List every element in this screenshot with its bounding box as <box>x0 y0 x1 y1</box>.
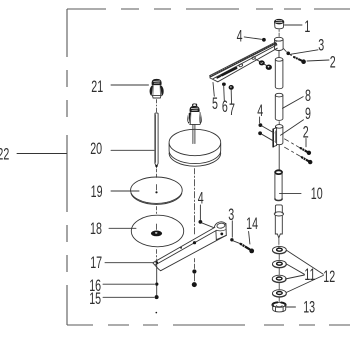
disc 18 <box>131 215 183 247</box>
stud body <box>275 216 282 238</box>
small mark below 15 <box>156 312 158 314</box>
label 17 leader <box>105 262 152 264</box>
diamond dot below arm <box>192 269 196 273</box>
screw 14 <box>241 244 255 253</box>
svg-text:5: 5 <box>212 95 218 113</box>
arm 5 dark slot <box>222 68 236 75</box>
rod between bracket and tube 10 <box>278 145 280 170</box>
svg-text:3: 3 <box>318 36 324 54</box>
upper tube (below collar) <box>275 51 283 89</box>
centerline stud to washers <box>278 239 280 248</box>
label 21 leader <box>111 84 149 86</box>
collar (arm 5 hub) <box>275 37 284 50</box>
nut 13 <box>272 302 285 312</box>
washer 1 <box>273 246 287 254</box>
label 11 fan lines <box>285 264 304 279</box>
label 5 leader <box>213 83 214 97</box>
tube 10 <box>275 170 282 200</box>
screw 4 mid a axis <box>262 126 274 133</box>
label 9 leader <box>281 120 304 136</box>
dot for label 16 <box>155 283 158 286</box>
screw 14 axis <box>233 241 239 244</box>
screw 3 top <box>286 52 291 56</box>
washer stack centerline <box>278 255 280 302</box>
phantom border top edge <box>67 9 350 325</box>
screw 4 mid b <box>258 131 262 135</box>
centerline disc 18 to arm 17 <box>156 250 158 262</box>
label 16 leader <box>103 283 155 285</box>
right centerline below arm with dots <box>193 259 195 282</box>
label 20 leader <box>111 149 154 151</box>
arm 17 face dot right <box>220 233 223 236</box>
washer 4 <box>273 290 287 298</box>
svg-text:4: 4 <box>198 189 204 207</box>
stud top cap <box>275 205 282 213</box>
label 3 top leader <box>291 50 318 54</box>
dot for label 15 <box>155 295 159 299</box>
svg-text:2: 2 <box>303 123 309 141</box>
label 19 leader <box>111 190 139 192</box>
arm 17 (lower diagonal bar) <box>153 222 227 271</box>
label 2 top leader <box>307 60 329 61</box>
bracket 9 <box>273 125 283 147</box>
screw 4 low (dot) <box>199 220 203 224</box>
label 4 top leader <box>244 37 261 39</box>
clamp knob under arm <box>266 65 272 70</box>
svg-text:19: 19 <box>91 183 103 201</box>
label 12 fan lines <box>286 250 323 292</box>
screw 4 top (dot) <box>262 38 266 42</box>
washer 2 <box>273 260 287 268</box>
svg-text:22: 22 <box>0 145 9 163</box>
centerline thick disc to arm <box>194 169 196 235</box>
label 22 leader <box>17 153 67 155</box>
svg-text:4: 4 <box>237 27 243 45</box>
label 6 leader <box>223 86 226 100</box>
label 4 mid leader <box>259 117 261 123</box>
washer 3 <box>272 275 286 283</box>
svg-text:3: 3 <box>228 206 234 224</box>
label 3 low leader <box>231 221 233 237</box>
svg-text:21: 21 <box>91 78 103 96</box>
screw 3 low dot <box>230 238 233 241</box>
washer 7 <box>229 85 234 90</box>
tube 8 <box>275 93 283 120</box>
centerline cap to collar <box>278 30 280 37</box>
arm 5 hole (right) <box>252 56 256 59</box>
star knob on thick disc <box>187 104 202 125</box>
svg-text:9: 9 <box>305 105 311 123</box>
arm 5 (upper diagonal bar) <box>210 42 277 82</box>
label 1 leader <box>285 24 303 26</box>
svg-text:18: 18 <box>90 220 102 238</box>
centerline knob 21 to rod 20 <box>156 100 158 113</box>
label 13 leader <box>286 306 295 308</box>
svg-text:1: 1 <box>304 18 310 36</box>
screw 4 mid a <box>259 123 263 127</box>
label 15 leader <box>103 296 154 298</box>
phantom border left edge <box>66 9 68 325</box>
round dot below arm <box>192 282 197 287</box>
dot 16 on left centerline at arm top <box>156 261 159 264</box>
label 8 leader <box>283 97 304 109</box>
arm 17 face dot mid <box>180 247 182 249</box>
clamp bolt axis under arm <box>255 59 266 65</box>
label 18 leader <box>109 227 136 229</box>
svg-text:14: 14 <box>246 215 258 233</box>
left centerline through arm to dots 15/16 <box>156 263 158 298</box>
svg-text:11: 11 <box>304 266 315 284</box>
label 7 leader <box>230 90 232 103</box>
svg-text:17: 17 <box>90 254 102 272</box>
svg-text:4: 4 <box>257 102 263 120</box>
svg-text:2: 2 <box>330 53 336 71</box>
knob stem <box>193 125 195 144</box>
screw 4 low axis to arm hole <box>202 223 213 228</box>
label 10 leader <box>280 193 302 195</box>
disc 19 <box>131 177 183 204</box>
part 1 cap nut <box>275 19 284 29</box>
svg-text:8: 8 <box>305 87 311 105</box>
arm 5 small slot <box>217 76 220 78</box>
screw 2 mid a <box>285 139 312 155</box>
svg-text:7: 7 <box>229 101 235 119</box>
label 2 mid leader <box>305 139 307 147</box>
svg-text:10: 10 <box>311 185 323 203</box>
phantom border bottom edge <box>67 324 350 326</box>
dot on centerline at arm <box>193 241 196 244</box>
clamp washer under arm <box>260 61 264 64</box>
screw 2 top <box>294 57 306 64</box>
svg-text:15: 15 <box>89 290 101 308</box>
centerline rod 20 to disc 19 <box>156 169 158 178</box>
label 14 leader <box>249 232 250 245</box>
svg-text:20: 20 <box>90 140 102 158</box>
arm 5 hole ellipse <box>239 64 243 68</box>
rod 20 <box>155 113 158 167</box>
screw 2 mid b <box>285 147 313 164</box>
thick disc (spool) <box>169 129 221 166</box>
centerline disc 19 to disc 18 <box>156 207 158 214</box>
svg-text:13: 13 <box>303 298 315 316</box>
svg-text:6: 6 <box>222 98 228 116</box>
screw 6 head <box>222 83 226 86</box>
stud flange <box>274 212 283 216</box>
svg-text:12: 12 <box>323 268 335 286</box>
star knob 21 <box>150 79 164 98</box>
label 4 low leader <box>199 205 201 220</box>
centerline tube8 to bracket <box>278 122 280 125</box>
collar screw axis dash <box>284 49 287 52</box>
screw 4 mid b axis <box>262 134 274 141</box>
